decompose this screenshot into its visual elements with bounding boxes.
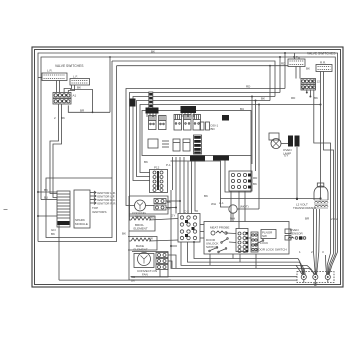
terminal N <box>313 274 318 279</box>
wire spark loop outer <box>38 66 117 242</box>
wire transformer drops <box>0 0 1 1</box>
wire RR to transformer feed <box>320 72 322 106</box>
wire board bottom drop 5 <box>187 162 189 214</box>
wire terminal fan L2 <box>326 252 338 275</box>
connector C2 grid <box>178 210 200 243</box>
svg-text:IGNITORS: IGNITORS <box>92 210 106 214</box>
svg-text:BK: BK <box>204 194 208 198</box>
connector P5 black strip <box>213 156 229 161</box>
relay K5 <box>193 115 201 131</box>
svg-text:J2: J2 <box>317 80 321 84</box>
wire latch drop 1 <box>209 254 211 265</box>
svg-text:RD: RD <box>291 96 296 100</box>
bake group box <box>128 237 157 251</box>
wire terminal fan N <box>307 209 320 275</box>
svg-text:2 0 2: 2 0 2 <box>331 217 338 221</box>
svg-text:RD: RD <box>253 176 258 180</box>
wire grid to latch 3 <box>200 237 204 239</box>
component boxes small <box>200 122 210 130</box>
wire ladder ground <box>51 225 59 280</box>
wire motor feed <box>171 161 260 209</box>
wire terminal fan L1 <box>296 259 305 275</box>
svg-text:IGNITOR R.R.: IGNITOR R.R. <box>97 202 116 206</box>
svg-text:ELEMENT: ELEMENT <box>134 227 148 231</box>
cooling fan <box>132 200 147 219</box>
svg-text:ELEMENT: ELEMENT <box>134 248 148 252</box>
wire bus to ladder 1 <box>37 188 57 193</box>
svg-text:A1: A1 <box>73 94 77 98</box>
wire board bottom drop 1 <box>172 157 174 190</box>
wire convconn drop <box>159 270 161 277</box>
wire board bottom drop 2 <box>175 157 177 214</box>
terminal L2 <box>325 274 330 279</box>
board lower dashes <box>162 141 169 147</box>
wire right tap 2 <box>255 100 257 172</box>
wire bottom step 2 <box>188 242 300 262</box>
svg-text:BU: BU <box>44 196 48 200</box>
wire center bus 5 transformer feed <box>140 105 321 199</box>
wire bottom long 2 <box>59 279 297 281</box>
latch motor circle <box>219 201 249 222</box>
wire convconn stub 1 <box>168 255 176 268</box>
ignitor arrow R.F. <box>90 198 116 202</box>
wire bottom step 3 <box>181 242 307 265</box>
margin tick <box>4 209 8 211</box>
svg-text:3: 3 <box>322 250 324 254</box>
svg-text:WH: WH <box>211 202 216 206</box>
connector inline bus <box>130 99 136 107</box>
wire convconn stub 2 <box>168 261 172 268</box>
svg-text:MEAT PROBE: MEAT PROBE <box>210 226 229 230</box>
control board lower-right outline <box>225 156 251 193</box>
wire bus to ladder 2 <box>41 196 57 200</box>
wire drop x110 <box>109 56 111 112</box>
wire BK from LF right <box>70 86 93 113</box>
wire center bus 1 <box>126 89 285 206</box>
wire bottom step 1 <box>194 242 298 259</box>
connector convection pairs <box>156 253 168 270</box>
wire spark loop inner drop <box>111 61 113 178</box>
svg-text:FAN: FAN <box>142 273 148 277</box>
svg-text:BK: BK <box>77 86 81 90</box>
svg-text:BK: BK <box>306 67 310 71</box>
wire grid drop 3 <box>244 191 246 222</box>
wire center bus 4 <box>137 101 271 177</box>
svg-text:BK: BK <box>253 182 257 186</box>
wire J2 drop 4 to right bundle <box>314 90 331 253</box>
latch connector col 2 <box>251 232 258 252</box>
svg-text:(MOT): (MOT) <box>240 205 249 209</box>
transformer <box>293 183 328 210</box>
wire center bus 2 <box>130 93 281 221</box>
wire P12 drop <box>171 190 177 246</box>
wire center bus 3 <box>133 97 275 181</box>
connector fan pair <box>154 199 172 211</box>
svg-text:2: 2 <box>311 250 313 254</box>
wire RF top stubs <box>281 53 299 66</box>
wire fanconn stub 2 <box>166 207 177 209</box>
svg-text:DOOR LOCK SWITCH: DOOR LOCK SWITCH <box>256 248 287 252</box>
svg-text:L.R.: L.R. <box>47 69 53 73</box>
control board outline <box>142 111 251 156</box>
oven sensor <box>288 228 306 240</box>
wire tap b1 <box>284 52 286 89</box>
svg-text:BR: BR <box>305 217 310 221</box>
wire A1 down pair1 <box>50 104 59 194</box>
svg-text:W: W <box>150 237 153 241</box>
board relay K6 <box>173 139 180 151</box>
svg-text:BU: BU <box>240 107 244 111</box>
labels RD BK bottom <box>131 275 136 283</box>
wire grid drop 1 <box>230 191 232 222</box>
svg-text:A-1: A-1 <box>219 201 224 205</box>
bake element <box>129 237 178 252</box>
cooling group box <box>129 196 168 214</box>
svg-text:R.R.: R.R. <box>320 61 326 65</box>
spark module box <box>74 190 90 228</box>
spark connector ladder <box>57 191 70 227</box>
wire LR down to A1 <box>56 81 58 93</box>
wire LF down to A1 b <box>68 85 74 93</box>
ground symbol <box>313 280 317 286</box>
wire bus y61 <box>112 61 275 97</box>
connector board right grid <box>229 171 258 191</box>
connector oven light <box>288 136 300 147</box>
relay ladder black <box>194 135 202 154</box>
svg-text:P12: P12 <box>154 166 160 170</box>
wire labels RD BK under J2 <box>291 96 318 100</box>
latch assembly box <box>204 222 289 255</box>
svg-text:BD: BD <box>211 127 216 131</box>
wire bus to ladder 3 <box>37 215 57 217</box>
wire board bottom drop 4 <box>183 157 185 214</box>
wire right tap 3 <box>251 96 253 165</box>
connector P4 black bottom <box>190 156 205 162</box>
wire bottom step 4 <box>171 246 309 268</box>
wire oven light drop <box>221 144 322 201</box>
board relay K7 <box>183 139 190 151</box>
wire grid to latch 2 <box>200 231 204 233</box>
valve switch L.F. <box>70 75 90 86</box>
ignitor arrow L.F. <box>90 195 115 199</box>
ignitor arrow R.R. <box>90 202 116 206</box>
junction dots <box>170 241 195 247</box>
wire bus y65.7 <box>117 65 289 67</box>
ignitor arrow L.R. <box>90 191 116 195</box>
valve switch R.R. <box>316 61 332 72</box>
connector P2 black <box>146 108 159 118</box>
meat probe <box>210 226 229 236</box>
wire L2 top bus <box>41 57 335 254</box>
wire right tap 1 <box>258 104 260 210</box>
valve switch R.F. <box>288 55 305 67</box>
broil group box <box>129 216 155 231</box>
connector strip top P1 <box>149 92 153 112</box>
connector J2 block1 <box>301 79 320 85</box>
relay K4 <box>184 115 192 131</box>
svg-text:BK: BK <box>144 160 148 164</box>
connector P12 <box>150 166 168 193</box>
terminal pins below <box>304 280 328 283</box>
convection group box <box>132 252 168 278</box>
wire tap b2 <box>279 56 281 93</box>
wire latch drop 4 <box>255 254 257 268</box>
wire L1 top bus <box>38 53 338 252</box>
border frame outer <box>32 47 343 287</box>
svg-text:C-2: C-2 <box>184 210 189 214</box>
svg-text:SENSOR: SENSOR <box>290 232 304 236</box>
latch plunger box <box>261 230 276 239</box>
svg-text:BK: BK <box>44 188 48 192</box>
svg-text:MODULE: MODULE <box>75 222 88 226</box>
svg-text:SW: SW <box>262 234 267 238</box>
svg-text:BK: BK <box>122 232 126 236</box>
door unlock switch <box>206 238 228 249</box>
terminal block dashed <box>297 272 334 283</box>
connector P6 black <box>222 115 229 121</box>
latch connector columns <box>226 229 251 253</box>
wire LR down to A1 b <box>59 81 61 93</box>
wire BR from A1 <box>68 105 110 113</box>
wire RF to J2 <box>296 67 310 79</box>
wire LF down to A1 <box>64 85 71 93</box>
connector A1 block2 <box>53 99 71 105</box>
board lower square <box>148 139 158 148</box>
wire fanconn stub 1 <box>166 200 181 202</box>
terminal L1 <box>301 274 306 279</box>
relay K2 <box>159 116 167 130</box>
wire A1 down pair2 <box>53 104 62 198</box>
wire grid to latch 1 <box>200 224 204 226</box>
svg-text:BK: BK <box>151 49 155 53</box>
svg-text:RD: RD <box>246 85 251 89</box>
broil element <box>129 216 178 231</box>
svg-text:2: 2 <box>54 116 56 120</box>
wire labels 2 BK <box>54 116 65 120</box>
connector J2 block2 <box>301 85 316 91</box>
svg-text:GY: GY <box>171 214 175 218</box>
misc wire labels <box>122 49 324 254</box>
svg-text:LOCK: LOCK <box>260 241 268 245</box>
valve switch L.R. <box>42 69 67 81</box>
svg-text:BK: BK <box>314 96 318 100</box>
label top ignitors <box>92 206 106 214</box>
labels above terminals <box>305 217 338 222</box>
wire RR drop to right bundle <box>324 72 334 254</box>
relay K1 <box>149 116 157 130</box>
wire LR box to bus <box>38 77 42 79</box>
svg-text:BK: BK <box>51 232 55 236</box>
relay K3 <box>174 115 182 131</box>
wire board bottom drop 3 <box>179 157 181 214</box>
wire grid drop 2 <box>238 191 240 229</box>
wire latch drop 3 <box>239 254 241 262</box>
wire J2 drop 2 <box>306 90 308 94</box>
wire board bottom drop 7 <box>195 162 198 212</box>
door lock switch <box>255 240 287 252</box>
svg-text:L.F.: L.F. <box>73 75 78 79</box>
wire J2 drop 1 <box>302 88 304 91</box>
svg-text:P-1: P-1 <box>166 163 171 167</box>
svg-text:1: 1 <box>299 250 301 254</box>
wire fan to connector <box>146 205 155 207</box>
wire bottom long 1 <box>131 276 298 278</box>
convection fan <box>134 253 157 277</box>
svg-text:VALVE SWITCHES: VALVE SWITCHES <box>307 52 336 56</box>
svg-text:R.F.: R.F. <box>293 55 299 59</box>
connector P3 black <box>181 106 197 117</box>
door switch contacts <box>209 247 227 253</box>
svg-text:WH: WH <box>230 217 235 221</box>
svg-text:BK: BK <box>61 116 65 120</box>
border frame inner <box>35 50 341 285</box>
latch right squares <box>285 229 291 240</box>
lower center group box <box>129 196 171 280</box>
connector A1 block1 <box>53 93 77 99</box>
svg-text:BK: BK <box>261 97 265 101</box>
spark module group box <box>46 178 112 238</box>
svg-text:GY: GY <box>284 154 288 158</box>
wire board bottom drop 6 <box>191 162 193 214</box>
wire J2 drop 3 <box>309 90 311 98</box>
wire latch drop 2 <box>232 254 234 259</box>
oven light <box>269 133 292 156</box>
svg-text:VALVE SWITCHES: VALVE SWITCHES <box>55 64 84 68</box>
